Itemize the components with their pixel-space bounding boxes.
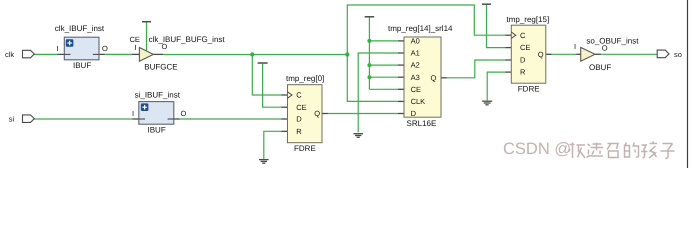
svg-text:si_IBUF_inst: si_IBUF_inst [135, 90, 181, 99]
const T marker for tmp_reg[15] CE [482, 4, 505, 47]
svg-text:Q: Q [431, 73, 437, 82]
watermark hanzi bei [569, 143, 586, 159]
svg-text:I: I [574, 42, 576, 51]
svg-text:C: C [520, 31, 526, 40]
wire OBUF O to so port [601, 53, 658, 55]
wire tmp_reg[0] R to ground [264, 131, 282, 159]
svg-text:IBUF: IBUF [73, 61, 91, 70]
wire tmp_reg[0] Q to SRL16E D [328, 113, 398, 115]
wire branch to A3 [369, 76, 398, 78]
wire branch to CE of SRL16E [369, 88, 398, 90]
svg-text:clk_IBUF_BUFG_inst: clk_IBUF_BUFG_inst [149, 35, 226, 44]
buffer U clk_IBUF_inst [55, 24, 108, 70]
svg-text:so: so [674, 50, 682, 59]
svg-text:BUFGCE: BUFGCE [144, 62, 177, 71]
wire tmp_reg[15] Q to OBUF I [551, 53, 576, 55]
svg-text:tmp_reg[0]: tmp_reg[0] [286, 74, 324, 83]
shift register tmp_reg[14]_srl14 SRL16E [388, 24, 453, 128]
svg-text:tmp_reg[15]: tmp_reg[15] [507, 15, 550, 24]
wire clk_IBUF O to BUFGCE I [104, 53, 132, 55]
svg-text:O: O [181, 109, 187, 118]
input port si [9, 115, 35, 124]
svg-text:O: O [102, 44, 108, 53]
watermark hanzi de [625, 143, 639, 158]
output port so [657, 50, 682, 59]
svg-text:I: I [57, 44, 59, 53]
input port clk [5, 50, 34, 59]
svg-text:A0: A0 [411, 37, 420, 46]
ground symbol below tmp_reg[15] [482, 101, 492, 105]
svg-text:IBUF: IBUF [148, 126, 166, 135]
const T marker for tmp_reg[0] CE [258, 63, 282, 107]
svg-text:CE: CE [411, 85, 421, 94]
wire SRL16E Q to tmp_reg[15] D [446, 60, 505, 78]
svg-text:FDRE: FDRE [294, 144, 316, 153]
wire clk_IBUF_BUFG net main horizontal [163, 54, 348, 56]
svg-text:clk_IBUF_inst: clk_IBUF_inst [55, 24, 105, 33]
buffer U so_OBUF_inst [574, 37, 639, 73]
svg-text:si: si [9, 115, 15, 124]
const1 T marker for BUFGCE CE [142, 22, 151, 51]
svg-text:C: C [296, 91, 302, 100]
svg-text:D: D [296, 115, 302, 124]
wire branch to A0 [369, 40, 398, 42]
net gnd wire to A1 and ground [358, 53, 398, 132]
svg-text:R: R [520, 68, 526, 77]
svg-text:FDRE: FDRE [518, 84, 540, 93]
svg-text:tmp_reg[14]_srl14: tmp_reg[14]_srl14 [388, 24, 453, 33]
const1 T marker for SRL16E address net [365, 16, 375, 18]
watermark hanzi zhao [607, 144, 618, 158]
flip-flop tmp_reg[15] FDRE [505, 15, 551, 93]
ground symbol for A1 net [353, 134, 363, 138]
watermark hanzi xuan [587, 143, 604, 158]
ground symbol below tmp_reg[0] [259, 160, 269, 164]
svg-text:I: I [132, 109, 134, 118]
svg-text:CE: CE [296, 103, 306, 112]
net vcc vertical to A0 A2 A3 CE [368, 18, 370, 90]
watermark hanzi zi [661, 144, 675, 159]
svg-text:clk: clk [5, 50, 14, 59]
svg-text:D: D [520, 56, 526, 65]
junction at A2 [367, 63, 371, 67]
svg-text:SRL16E: SRL16E [407, 119, 437, 128]
svg-text:R: R [296, 127, 302, 136]
svg-text:CE: CE [520, 43, 530, 52]
flip-flop tmp_reg[0] FDRE [281, 74, 327, 153]
svg-text:D: D [411, 109, 417, 118]
wire si port to si_IBUF I [34, 118, 132, 120]
svg-text:Q: Q [538, 50, 544, 59]
svg-text:A2: A2 [411, 61, 420, 70]
svg-text:so_OBUF_inst: so_OBUF_inst [586, 37, 639, 46]
wire clock net down to SRL16E CLK [347, 55, 398, 102]
junction on clock net at tmp_reg[0] branch [250, 52, 254, 56]
wire clock net up and over to tmp_reg[15] C [347, 5, 505, 55]
schematic canvas right border [687, 0, 689, 168]
svg-text:I: I [135, 43, 137, 52]
svg-text:OBUF: OBUF [589, 63, 611, 72]
svg-text:A1: A1 [411, 49, 420, 58]
wire branch down to tmp_reg[0] C [252, 55, 281, 96]
wire branch to A2 [369, 64, 398, 66]
wire clk port to IBUF I [34, 53, 58, 55]
watermark hanzi hai [641, 142, 657, 159]
svg-text:A3: A3 [411, 73, 420, 82]
svg-text:CSDN @: CSDN @ [503, 140, 571, 158]
junction at A3 [367, 75, 371, 79]
buffer U si_IBUF_inst [132, 90, 187, 134]
svg-text:Q: Q [314, 109, 320, 118]
wire tmp_reg[15] R to ground [487, 72, 505, 100]
svg-text:CLK: CLK [411, 97, 426, 106]
wire si_IBUF O to tmp_reg[0] D [180, 118, 282, 120]
buffer U clk_IBUF_BUFG_inst [130, 35, 226, 71]
junction at A0 [367, 39, 371, 43]
junction on clock net at x347 [345, 52, 349, 56]
